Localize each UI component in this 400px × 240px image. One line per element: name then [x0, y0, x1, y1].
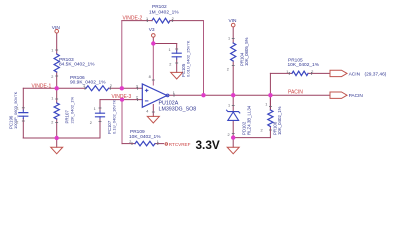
tick PR103 pin2: [55, 75, 58, 77]
tick PC107 pin1: [99, 107, 102, 109]
tick PR108 pin2: [269, 129, 272, 131]
capacitor PC196 leads: [22, 110, 24, 119]
tick PR109 pin1: [157, 142, 159, 145]
svg-text:VINDE-1: VINDE-1: [32, 83, 52, 89]
svg-text:2: 2: [169, 63, 171, 67]
power symbol VIN right: [231, 23, 235, 27]
junction PD102 ground node: [231, 135, 235, 139]
tick PC105 pin1: [175, 48, 178, 50]
wire PR102 right to feedback corner: [173, 20, 204, 22]
diode PD102 zener cathode bar: [227, 110, 240, 113]
power symbol V3: [152, 34, 156, 38]
svg-text:0.1U_0402_16V7K: 0.1U_0402_16V7K: [112, 99, 117, 134]
svg-text:VINDE-2: VINDE-2: [123, 15, 143, 21]
capacitor PC105 leads: [176, 51, 178, 59]
junction V3 node: [151, 41, 155, 45]
tick PC107 pin2: [99, 121, 102, 123]
tick PR108 pin1: [269, 106, 272, 108]
junction plus input: [120, 86, 124, 90]
resistor PR105 zigzag: [292, 71, 308, 75]
ground under divider: [51, 147, 63, 154]
op-amp U PU102A triangle: [142, 84, 167, 107]
wire VIN right stub to PR104: [232, 27, 234, 43]
svg-text:1: 1: [146, 17, 148, 21]
svg-text:1: 1: [265, 103, 267, 107]
svg-text:2: 2: [172, 17, 174, 21]
wire PR108 bottom lead: [269, 127, 271, 138]
wire ground stub bottom-left: [56, 138, 58, 147]
wire feedback vertical to output: [203, 21, 205, 96]
tick PR104 pin2: [232, 65, 235, 67]
svg-text:2: 2: [227, 68, 229, 72]
svg-text:1: 1: [51, 97, 53, 101]
svg-text:2: 2: [51, 121, 53, 125]
wire PR102 pin2 lead: [170, 20, 173, 22]
tick PR107 pin2: [55, 122, 58, 124]
svg-text:3: 3: [136, 84, 138, 88]
svg-text:PACIN: PACIN: [288, 89, 303, 95]
wire PC196 bottom: [22, 119, 24, 139]
svg-text:2: 2: [16, 121, 18, 125]
wire PR105 left lead: [270, 72, 292, 74]
tick PC196 pin1: [22, 107, 25, 109]
tick opamp pin4: [152, 111, 155, 113]
svg-text:1: 1: [94, 107, 96, 111]
svg-text:3.3V: 3.3V: [196, 138, 220, 152]
wire VINDE-2 horizontal: [122, 20, 147, 22]
svg-text:2: 2: [136, 96, 138, 100]
tick PC105 pin2: [175, 62, 178, 64]
wire V3 stub: [152, 37, 154, 43]
tick opamp pin3: [137, 87, 139, 90]
junction ground bus: [55, 136, 59, 140]
capacitor PC107 plates: [96, 113, 105, 117]
capacitor PC107 leads: [99, 111, 101, 119]
wire op-amp output to ACIN/PACIN bus: [169, 94, 330, 96]
wire PR104 bottom to output: [232, 61, 234, 95]
junction PR108-output: [268, 93, 272, 97]
resistor PR106 zigzag: [86, 86, 109, 91]
svg-text:2: 2: [261, 129, 263, 133]
svg-text:1: 1: [228, 37, 230, 41]
tick PR105 pin2: [311, 72, 313, 75]
tick PR107 pin1: [55, 98, 58, 100]
svg-text:2: 2: [51, 75, 53, 79]
pin ticks group: [22, 19, 312, 145]
wire PR105 right lead to ACIN: [308, 72, 330, 74]
wire PR108 top lead through output junction: [269, 73, 271, 110]
wire VINDE-1 down to PR107: [56, 88, 58, 103]
wire VINDE-3 down to PR109: [121, 100, 123, 144]
svg-text:V3: V3: [149, 27, 155, 33]
junction feedback-output: [201, 93, 205, 97]
wire op-amp pin 4 stub: [152, 105, 154, 117]
svg-text:8: 8: [149, 75, 151, 79]
op-amp minus sign: [145, 100, 148, 102]
capacitor PC105 plates: [172, 53, 181, 57]
resistor PR104 zigzag: [231, 43, 236, 61]
ground under PD102: [227, 147, 239, 154]
svg-text:1: 1: [169, 48, 171, 52]
wire PR109 right lead to RTCVREF: [155, 143, 164, 145]
tick PR103 pin1: [55, 49, 58, 51]
svg-text:VIN: VIN: [229, 18, 238, 24]
op-amp output bubble: [166, 94, 169, 97]
junction VINDE-1: [55, 86, 59, 90]
svg-text:PU102A: PU102A: [159, 100, 179, 106]
tick PR106 pin1: [84, 87, 86, 90]
svg-text:1: 1: [228, 104, 230, 108]
wire PC107 top riser: [99, 100, 101, 111]
tick PD102 pin2: [232, 133, 235, 135]
svg-text:VINDE-3: VINDE-3: [112, 94, 132, 100]
power symbol VIN left: [55, 29, 59, 33]
wire PR108 junction segment: [269, 95, 271, 110]
tick opamp pin8: [152, 79, 155, 81]
wire V3 down to op-amp pin 8: [152, 44, 154, 86]
ground under PC105: [171, 72, 183, 79]
svg-text:4: 4: [146, 110, 148, 114]
svg-text:1: 1: [157, 140, 159, 144]
tick PR106 pin2: [109, 87, 111, 90]
wire VINDE-3 to op-amp pin 2: [100, 99, 142, 101]
svg-text:RTCVREF: RTCVREF: [169, 142, 191, 147]
tick PR109 pin2: [131, 142, 133, 145]
svg-text:1: 1: [286, 70, 288, 74]
wire PC105 bottom lead to ground: [176, 59, 178, 72]
capacitor PC196 plates: [19, 113, 28, 117]
svg-text:22K_0402_1%: 22K_0402_1%: [69, 97, 74, 124]
resistor PR107 zigzag: [54, 103, 59, 119]
svg-text:ACIN: ACIN: [349, 72, 361, 78]
tick opamp pin1: [173, 94, 175, 97]
diode PD102 triangle: [228, 112, 239, 120]
resistor PR109 zigzag: [135, 141, 155, 146]
wire output down to PD102: [232, 95, 234, 110]
wire left drop to PC196: [22, 88, 24, 110]
junction VINDE-3: [120, 97, 124, 101]
svg-text:RLZ4.3B_LL34: RLZ4.3B_LL34: [247, 105, 252, 135]
wire PC107 bottom riser: [99, 119, 101, 139]
wire PR103 bottom to VINDE-1: [56, 72, 58, 88]
resistor PR108 zigzag: [268, 110, 273, 127]
svg-text:1: 1: [17, 107, 19, 111]
junction pullup-output: [231, 93, 235, 97]
svg-text:1: 1: [83, 84, 85, 88]
wire PR107 bottom to ground bus: [56, 119, 58, 138]
off-page arrow ACIN: [330, 70, 347, 76]
wire PD102 node to PR108 bottom: [233, 137, 270, 139]
op-amp plus sign: [145, 89, 148, 91]
wire VINDE-1 right segment to op-amp pin 3: [109, 87, 143, 89]
ground op-amp pin4: [147, 116, 159, 123]
wire PR102 pin1 lead: [147, 20, 152, 22]
wire VINDE-2 vertical to plus input: [121, 21, 123, 89]
tick PR102 pin1: [146, 19, 148, 22]
svg-text:1: 1: [173, 91, 175, 95]
svg-text:(29,37,46): (29,37,46): [365, 72, 387, 78]
resistor PR103 zigzag: [54, 54, 59, 72]
wire PR109 left lead: [122, 143, 135, 145]
svg-text:PR102: PR102: [152, 4, 167, 10]
svg-text:2: 2: [90, 121, 92, 125]
svg-text:LM393DG_SO8: LM393DG_SO8: [159, 107, 197, 113]
svg-text:2: 2: [110, 84, 112, 88]
svg-text:10K_0402_1%: 10K_0402_1%: [288, 62, 320, 68]
svg-text:VIN: VIN: [52, 25, 61, 31]
svg-text:2: 2: [228, 133, 230, 137]
resistor PR102 zigzag: [152, 18, 170, 23]
tick PR102 pin2: [171, 19, 173, 22]
tick PR105 pin1: [288, 72, 290, 75]
svg-text:0.01U_0402_25V7K: 0.01U_0402_25V7K: [186, 40, 191, 77]
tick PR104 pin1: [232, 38, 235, 40]
tick opamp pin2: [137, 98, 139, 101]
wire bottom-left ground bus: [23, 137, 100, 139]
svg-text:84.5K_0402_1%: 84.5K_0402_1%: [59, 62, 95, 68]
wire ground stub under PD102: [232, 138, 234, 148]
svg-text:90.9K_0402_1%: 90.9K_0402_1%: [70, 80, 106, 86]
svg-text:1M_0402_1%: 1M_0402_1%: [149, 10, 179, 16]
wire PC105 top lead: [176, 44, 178, 51]
tick PD102 pin1: [232, 105, 235, 107]
wire VIN stub to PR103: [56, 33, 58, 54]
off-page connector RTCVREF circle: [165, 143, 167, 145]
svg-text:10K_0805_5%: 10K_0805_5%: [244, 37, 249, 66]
wire VINDE-1 left segment: [23, 87, 86, 89]
svg-text:2: 2: [311, 70, 313, 74]
svg-text:2: 2: [129, 140, 131, 144]
svg-text:10K_0402_1%: 10K_0402_1%: [277, 106, 282, 135]
off-page arrow PACIN: [330, 92, 347, 98]
wire PD102 anode to ground node: [232, 121, 234, 138]
tick PC196 pin2: [22, 120, 25, 122]
svg-text:PACIN: PACIN: [349, 93, 364, 99]
svg-text:1: 1: [51, 49, 53, 53]
wire V3 to PC105: [153, 43, 176, 45]
